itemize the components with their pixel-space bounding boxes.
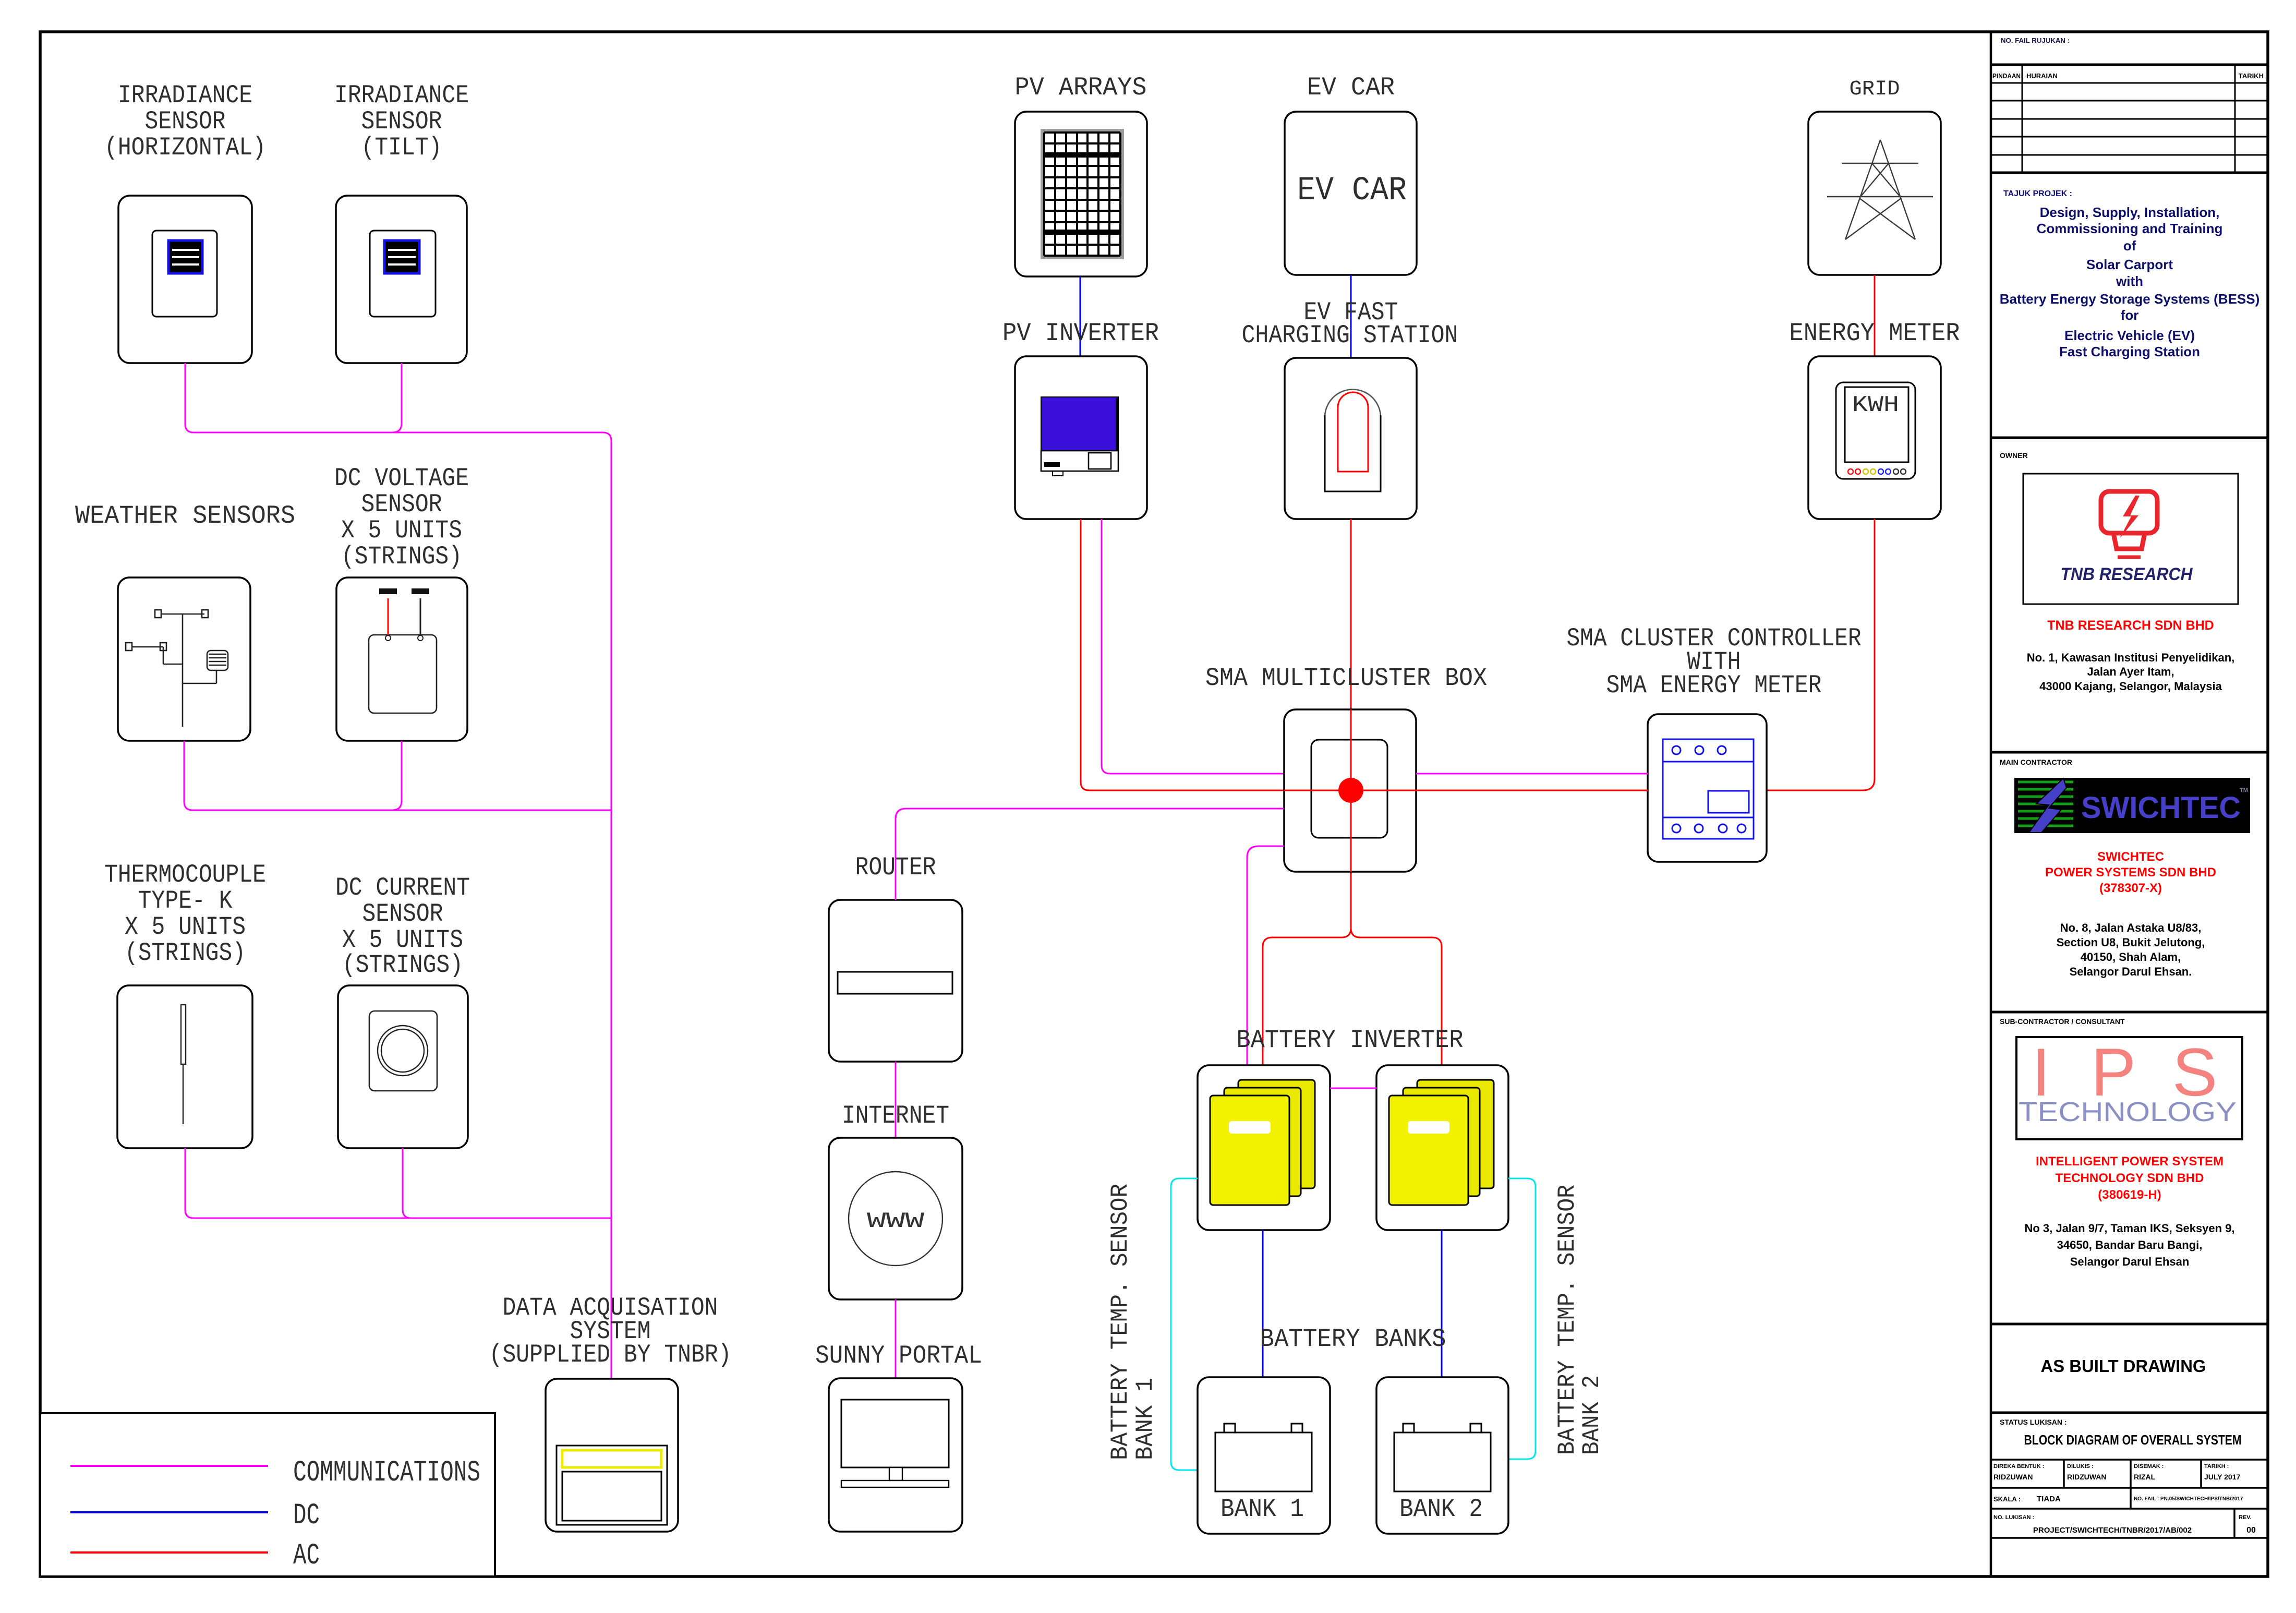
svg-text:Jalan Ayer Itam,: Jalan Ayer Itam, <box>2087 665 2174 678</box>
title block: owner section <box>1991 438 2268 460</box>
irradiance sensor (horizontal) label <box>104 81 266 162</box>
svg-text:SKALA :: SKALA : <box>1993 1495 2021 1503</box>
svg-text:AC: AC <box>293 1539 320 1573</box>
title block: revision table <box>1991 65 2268 173</box>
sunny portal box (monitor) <box>829 1378 962 1532</box>
wire comms: DC current sensor -> bus <box>403 1148 411 1218</box>
grid box (transmission tower) <box>1808 112 1941 275</box>
PV arrays label <box>1015 73 1147 102</box>
svg-text:COMMUNICATIONS: COMMUNICATIONS <box>293 1456 480 1490</box>
irradiance sensor (horizontal) box <box>118 196 252 363</box>
SMA multicluster box <box>1284 709 1416 872</box>
svg-text:DILUKIS :: DILUKIS : <box>2067 1463 2094 1470</box>
svg-text:IRRADIANCE: IRRADIANCE <box>334 81 469 110</box>
svg-text:SENSOR: SENSOR <box>145 107 226 136</box>
wire comms: weather sensors -> bus <box>184 741 611 810</box>
svg-text:BATTERY INVERTER: BATTERY INVERTER <box>1237 1026 1464 1055</box>
wire comms: internet -> sunny portal <box>895 1299 897 1378</box>
SMA cluster controller box (contactor) <box>1648 714 1767 862</box>
title block: status lukisan <box>1991 1413 2268 1448</box>
svg-text:POWER SYSTEMS SDN BHD: POWER SYSTEMS SDN BHD <box>2045 865 2216 880</box>
svg-text:TARIKH :: TARIKH : <box>2204 1463 2229 1470</box>
wire comms: battery inverter -> SMA multicluster <box>1247 846 1284 1065</box>
title block: as built drawing <box>1991 1324 2268 1376</box>
svg-text:TECHNOLOGY: TECHNOLOGY <box>2019 1097 2237 1127</box>
svg-text:BATTERY TEMP. SENSOR: BATTERY TEMP. SENSOR <box>1554 1185 1581 1455</box>
battery banks label <box>1260 1325 1446 1354</box>
energy meter box (KWH meter) <box>1808 356 1941 519</box>
svg-text:40150, Shah Alam,: 40150, Shah Alam, <box>2081 950 2181 964</box>
legend AC line <box>70 1539 320 1573</box>
svg-text:ENERGY METER: ENERGY METER <box>1790 319 1960 348</box>
svg-text:(378307-X): (378307-X) <box>2099 881 2162 895</box>
svg-text:TECHNOLOGY SDN BHD: TECHNOLOGY SDN BHD <box>2056 1171 2204 1185</box>
legend box <box>40 1413 495 1576</box>
svg-text:NO. FAIL RUJUKAN :: NO. FAIL RUJUKAN : <box>2001 37 2070 44</box>
svg-text:No. 8, Jalan Astaka U8/83,: No. 8, Jalan Astaka U8/83, <box>2060 921 2202 934</box>
IPS Technology logo <box>2016 1034 2242 1139</box>
svg-text:TNB RESEARCH: TNB RESEARCH <box>2061 564 2193 584</box>
svg-text:No. 1, Kawasan Institusi Penye: No. 1, Kawasan Institusi Penyelidikan, <box>2027 651 2235 664</box>
battery temp. sensor bank 2 vertical label <box>1554 1185 1605 1455</box>
svg-text:SENSOR: SENSOR <box>361 490 442 519</box>
router box <box>829 900 962 1062</box>
svg-text:Selangor Darul Ehsan.: Selangor Darul Ehsan. <box>2070 965 2192 978</box>
svg-text:Solar Carport: Solar Carport <box>2086 257 2173 272</box>
svg-text:PV INVERTER: PV INVERTER <box>1002 319 1159 348</box>
svg-text:AS BUILT DRAWING: AS BUILT DRAWING <box>2041 1356 2206 1376</box>
svg-text:X 5 UNITS: X 5 UNITS <box>125 912 246 942</box>
svg-text:(STRINGS): (STRINGS) <box>125 938 246 968</box>
svg-text:DIREKA BENTUK :: DIREKA BENTUK : <box>1993 1463 2044 1470</box>
DC voltage sensor label <box>334 464 469 571</box>
svg-text:RIDZUWAN: RIDZUWAN <box>1993 1473 2033 1481</box>
battery inverter 1 box <box>1198 1065 1330 1230</box>
svg-text:TIADA: TIADA <box>2037 1495 2061 1503</box>
router label <box>855 853 936 882</box>
EV fast charging station label <box>1242 298 1458 350</box>
sunny portal label <box>815 1341 982 1370</box>
EV car box <box>1285 112 1417 275</box>
battery inverter label <box>1237 1026 1464 1055</box>
wire DC: battery inverter 1 -> bank 1 <box>1262 1230 1264 1377</box>
internet label <box>842 1101 949 1130</box>
svg-text:EV CAR: EV CAR <box>1297 172 1407 210</box>
svg-text:REV.: REV. <box>2239 1514 2252 1521</box>
svg-text:BATTERY TEMP. SENSOR: BATTERY TEMP. SENSOR <box>1107 1184 1134 1460</box>
battery temp. sensor bank 1 vertical label <box>1107 1184 1159 1460</box>
svg-text:SWICHTEC: SWICHTEC <box>2097 850 2164 864</box>
svg-text:STATUS LUKISAN :: STATUS LUKISAN : <box>2000 1418 2067 1426</box>
wire temp sensor bank 1 (cyan) <box>1171 1178 1198 1470</box>
title block: project title <box>2000 189 2260 359</box>
svg-text:with: with <box>2116 273 2143 289</box>
legend communications line <box>70 1456 480 1490</box>
svg-text:INTELLIGENT POWER SYSTEM: INTELLIGENT POWER SYSTEM <box>2036 1154 2224 1169</box>
title block: main contractor section <box>1991 752 2268 766</box>
wire temp sensor bank 2 (cyan) <box>1508 1178 1536 1459</box>
legend DC line <box>70 1499 320 1533</box>
internet box (WWW cloud) <box>829 1138 962 1299</box>
svg-text:BLOCK DIAGRAM OF OVERALL SYSTE: BLOCK DIAGRAM OF OVERALL SYSTEM <box>2024 1432 2242 1448</box>
irradiance sensor (tilt) box <box>336 196 467 363</box>
battery inverter 2 box <box>1376 1065 1508 1230</box>
irradiance sensor (tilt) label <box>334 81 469 162</box>
svg-text:Fast Charging Station: Fast Charging Station <box>2059 344 2200 359</box>
grid label <box>1850 78 1900 101</box>
weather sensors label <box>75 501 295 531</box>
svg-text:(STRINGS): (STRINGS) <box>341 542 462 571</box>
thermocouple type-K label <box>104 860 266 968</box>
svg-text:(SUPPLIED BY TNBR): (SUPPLIED BY TNBR) <box>489 1340 732 1369</box>
svg-text:NO. LUKISAN :: NO. LUKISAN : <box>1993 1514 2034 1521</box>
wire AC: energy meter -> AC junction <box>1767 519 1875 790</box>
svg-text:(HORIZONTAL): (HORIZONTAL) <box>104 133 266 162</box>
wire comms: SMA multicluster -> cluster controller <box>1416 773 1648 775</box>
Swichtec logo <box>2014 778 2250 833</box>
title block: NO. FAIL RUJUKAN header <box>1991 37 2268 65</box>
TNB Research logo <box>2023 474 2238 604</box>
svg-text:00: 00 <box>2246 1526 2256 1535</box>
svg-text:BANK 1: BANK 1 <box>1132 1378 1159 1460</box>
wire comms: PV inverter -> SMA multicluster box <box>1102 519 1284 774</box>
svg-text:WWW: WWW <box>867 1209 925 1234</box>
svg-text:of: of <box>2123 238 2136 254</box>
sub-contractor name/address <box>2024 1154 2234 1268</box>
svg-text:Selangor Darul Ehsan: Selangor Darul Ehsan <box>2070 1255 2190 1268</box>
title block: signature table <box>1991 1460 2268 1538</box>
svg-text:for: for <box>2121 307 2139 323</box>
svg-text:JULY 2017: JULY 2017 <box>2204 1473 2240 1481</box>
svg-text:TARIKH: TARIKH <box>2239 72 2264 80</box>
weather sensors box <box>118 577 250 741</box>
DC current sensor box <box>338 985 468 1148</box>
svg-text:TNB RESEARCH SDN BHD: TNB RESEARCH SDN BHD <box>2047 618 2214 633</box>
DC current sensor label <box>335 873 470 980</box>
svg-text:No 3, Jalan 9/7, Taman IKS, Se: No 3, Jalan 9/7, Taman IKS, Seksyen 9, <box>2024 1222 2234 1235</box>
svg-text:PINDAAN: PINDAAN <box>1992 72 2021 80</box>
wire DC: PV arrays -> PV inverter <box>1080 276 1081 356</box>
svg-text:Battery Energy Storage Systems: Battery Energy Storage Systems (BESS) <box>2000 291 2260 307</box>
thermocouple box <box>117 985 252 1148</box>
PV arrays box <box>1015 112 1147 276</box>
svg-text:X 5 UNITS: X 5 UNITS <box>341 516 462 545</box>
DC voltage sensor box <box>336 577 467 741</box>
wire comms: thermocouple -> bus <box>185 1148 611 1218</box>
svg-text:Design, Supply, Installation,: Design, Supply, Installation, <box>2040 204 2220 220</box>
svg-text:IRRADIANCE: IRRADIANCE <box>118 81 252 110</box>
svg-text:SWICHTEC: SWICHTEC <box>2081 791 2241 825</box>
energy meter label <box>1790 319 1960 348</box>
svg-text:Electric Vehicle (EV): Electric Vehicle (EV) <box>2064 328 2195 343</box>
svg-text:OWNER: OWNER <box>2000 451 2028 460</box>
EV fast charging station box <box>1285 358 1417 519</box>
svg-text:INTERNET: INTERNET <box>842 1101 949 1130</box>
svg-text:(380619-H): (380619-H) <box>2098 1188 2161 1202</box>
battery bank 2 box <box>1376 1377 1508 1534</box>
svg-text:EV CAR: EV CAR <box>1307 73 1395 102</box>
main contractor name/address <box>2045 850 2216 978</box>
svg-text:BANK 2: BANK 2 <box>1578 1375 1605 1455</box>
svg-text:TM: TM <box>2240 787 2248 793</box>
svg-text:SMA ENERGY METER: SMA ENERGY METER <box>1606 671 1822 700</box>
svg-text:BATTERY BANKS: BATTERY BANKS <box>1260 1325 1446 1354</box>
svg-text:CHARGING STATION: CHARGING STATION <box>1242 321 1458 350</box>
svg-text:BANK 1: BANK 1 <box>1220 1495 1304 1524</box>
svg-text:Section U8, Bukit Jelutong,: Section U8, Bukit Jelutong, <box>2057 936 2205 949</box>
data acquisition system label <box>489 1293 732 1369</box>
svg-text:(STRINGS): (STRINGS) <box>342 950 463 980</box>
wire comms: irradiance horizontal -> DAS trunk <box>185 363 611 1379</box>
PV inverter label <box>1002 319 1159 348</box>
wire comms: router -> internet <box>895 1062 897 1138</box>
data acquisition system box <box>546 1379 678 1532</box>
svg-text:SUNNY PORTAL: SUNNY PORTAL <box>815 1341 982 1370</box>
wire AC: grid -> energy meter <box>1874 275 1876 356</box>
svg-text:43000 Kajang, Selangor, Malays: 43000 Kajang, Selangor, Malaysia <box>2039 680 2222 693</box>
svg-text:PV ARRAYS: PV ARRAYS <box>1015 73 1147 102</box>
svg-text:BANK 2: BANK 2 <box>1399 1495 1483 1524</box>
svg-text:DC VOLTAGE: DC VOLTAGE <box>334 464 469 493</box>
PV inverter box <box>1015 356 1147 519</box>
svg-text:34650, Bandar Baru Bangi,: 34650, Bandar Baru Bangi, <box>2057 1238 2203 1251</box>
svg-text:DISEMAK :: DISEMAK : <box>2134 1463 2164 1470</box>
svg-text:DC: DC <box>293 1499 320 1533</box>
wire comms: irradiance tilt -> bus <box>392 363 402 432</box>
SMA cluster controller label <box>1567 624 1862 700</box>
title block: sub-contractor section <box>1991 1012 2268 1026</box>
svg-text:KWH: KWH <box>1852 392 1899 418</box>
wire AC: multicluster -> cluster controller left <box>1416 790 1648 791</box>
svg-text:TAJUK PROJEK :: TAJUK PROJEK : <box>2003 189 2072 198</box>
wire AC: PV inverter -> SMA multicluster box <box>1081 519 1648 790</box>
svg-text:MAIN CONTRACTOR: MAIN CONTRACTOR <box>2000 758 2072 766</box>
owner name/address <box>2027 618 2235 693</box>
wire AC: EV fast charging station -> SMA multicluster -> battery inverters <box>1350 519 1352 928</box>
svg-text:RIDZUWAN: RIDZUWAN <box>2067 1473 2106 1481</box>
wire comms: DC voltage sensor -> bus <box>392 741 402 810</box>
svg-text:THERMOCOUPLE: THERMOCOUPLE <box>104 860 266 889</box>
wire DC: EV car -> EV fast charging station <box>1350 275 1352 358</box>
svg-text:Commissioning and Training: Commissioning and Training <box>2037 221 2223 236</box>
svg-text:(TILT): (TILT) <box>361 133 442 162</box>
svg-text:SENSOR: SENSOR <box>361 107 442 136</box>
wire comms: router -> SMA multicluster <box>896 809 1284 900</box>
wire comms: battery inverter 1 <-> 2 <box>1330 1088 1376 1089</box>
battery bank 1 box <box>1198 1377 1330 1534</box>
svg-text:NO. FAIL : PN.05/SWICHTECH/IP: NO. FAIL : PN.05/SWICHTECH/IPS/TNB/2017 <box>2134 1496 2243 1502</box>
AC junction node (red dot) <box>1284 709 1416 872</box>
svg-text:SUB-CONTRACTOR / CONSULTANT: SUB-CONTRACTOR / CONSULTANT <box>2000 1017 2125 1026</box>
svg-text:PROJECT/SWICHTECH/TNBR/2017/AB: PROJECT/SWICHTECH/TNBR/2017/AB/002 <box>2033 1526 2192 1535</box>
svg-text:GRID: GRID <box>1850 78 1900 101</box>
wire DC: battery inverter 2 -> bank 2 <box>1441 1230 1443 1377</box>
EV car label <box>1307 73 1395 102</box>
svg-text:DC CURRENT: DC CURRENT <box>335 873 470 902</box>
SMA multicluster box label <box>1205 664 1487 693</box>
svg-text:SENSOR: SENSOR <box>362 899 443 929</box>
svg-text:RIZAL: RIZAL <box>2134 1473 2156 1481</box>
svg-text:WEATHER SENSORS: WEATHER SENSORS <box>75 501 295 531</box>
svg-text:SMA MULTICLUSTER BOX: SMA MULTICLUSTER BOX <box>1205 664 1487 693</box>
svg-text:HURAIAN: HURAIAN <box>2026 72 2058 80</box>
svg-text:TYPE- K: TYPE- K <box>138 886 233 916</box>
